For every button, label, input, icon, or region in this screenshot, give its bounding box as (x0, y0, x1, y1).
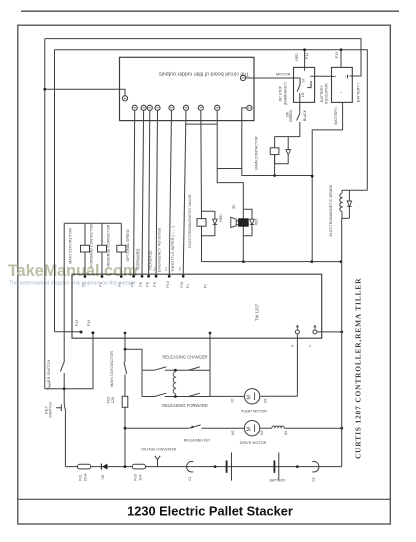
svg-text:ELECTROMAGNETIC VALVE: ELECTROMAGNETIC VALVE (187, 194, 192, 248)
svg-text:FORWARD: FORWARD (136, 249, 141, 270)
svg-text:FORWARD CONTACTOR: FORWARD CONTACTOR (90, 224, 94, 267)
svg-text:M: M (246, 427, 252, 432)
svg-text:BATTERY-: BATTERY- (334, 106, 338, 125)
svg-text:BATTERY: BATTERY (320, 84, 324, 102)
svg-text:REVERSE CONTACTOR: REVERSE CONTACTOR (107, 224, 111, 266)
svg-text:30A: 30A (138, 474, 142, 481)
svg-text:P2: P2 (135, 267, 139, 271)
svg-text:MAIN CONTACTOR: MAIN CONTACTOR (68, 228, 73, 264)
svg-text:The circuit board of tiller ru: The circuit board of tiller rudder outpu… (158, 70, 249, 76)
svg-text:RELEASING KEY: RELEASING KEY (184, 438, 211, 442)
svg-text:M3: M3 (260, 430, 264, 435)
svg-text:1230 Electric Pallet Stacker: 1230 Electric Pallet Stacker (127, 504, 293, 519)
svg-text:C20: C20 (111, 397, 115, 404)
svg-text:MAIN CONTACTOR: MAIN CONTACTOR (255, 136, 259, 170)
svg-text:RELEASING FORWARD: RELEASING FORWARD (162, 403, 208, 408)
svg-text:FU3: FU3 (133, 474, 137, 481)
svg-text:ST: ST (301, 78, 305, 82)
svg-text:P11: P11 (180, 281, 184, 287)
svg-text:VD: VD (101, 474, 105, 479)
svg-text:PUMP MOTOR: PUMP MOTOR (241, 409, 267, 413)
svg-text:GREEN: GREEN (289, 109, 293, 122)
svg-text:RED: RED (219, 214, 223, 222)
svg-text:TakeManual.com: TakeManual.com (8, 262, 137, 280)
svg-text:P16: P16 (87, 320, 91, 326)
svg-text:C0: C0 (231, 398, 235, 402)
svg-text:BATTERY+: BATTERY+ (357, 82, 361, 102)
svg-text:M1: M1 (264, 398, 268, 403)
svg-text:B2: B2 (284, 431, 288, 435)
svg-text:RED: RED (295, 53, 299, 61)
svg-text:TW 1207: TW 1207 (255, 303, 260, 321)
svg-text:EMERGENCY REVERSE: EMERGENCY REVERSE (157, 227, 162, 272)
svg-text:BATTERY: BATTERY (270, 479, 286, 483)
svg-text:B-: B- (308, 344, 312, 347)
svg-text:RELEASING CHANGER: RELEASING CHANGER (162, 355, 207, 360)
svg-text:M2: M2 (231, 430, 235, 435)
svg-text:FU2: FU2 (107, 397, 111, 404)
svg-text:THROTTLE WIPER (→←): THROTTLE WIPER (→←) (170, 225, 175, 272)
svg-text:P5: P5 (139, 282, 143, 286)
svg-text:DC STOP: DC STOP (279, 85, 283, 101)
svg-text:P8: P8 (145, 282, 149, 286)
svg-text:+: + (334, 74, 337, 79)
svg-text:INDICATOR: INDICATOR (325, 83, 329, 104)
svg-text:P2: P2 (204, 284, 208, 288)
svg-text:P13: P13 (75, 320, 79, 326)
svg-text:P5: P5 (178, 267, 182, 271)
svg-text:MAIN CONTACTOR: MAIN CONTACTOR (109, 351, 114, 387)
svg-text:P17: P17 (48, 382, 52, 388)
svg-text:DRIVE MOTOR: DRIVE MOTOR (240, 441, 267, 445)
svg-text:(EMERGENCY): (EMERGENCY) (283, 82, 287, 105)
svg-text:SWITCH: SWITCH (48, 402, 53, 418)
svg-text:P4: P4 (164, 267, 168, 271)
svg-text:VOLTAGE CONVERTER: VOLTAGE CONVERTER (141, 447, 177, 451)
svg-text:LO: LO (301, 92, 305, 97)
svg-text:REVERSE: REVERSE (147, 250, 152, 270)
svg-text:M: M (246, 395, 252, 400)
svg-text:M-: M- (291, 344, 295, 348)
svg-text:P4: P4 (99, 282, 103, 286)
svg-text:150A: 150A (84, 473, 88, 482)
svg-text:C2: C2 (312, 477, 316, 481)
svg-text:P3: P3 (118, 282, 122, 286)
svg-text:P11: P11 (305, 53, 309, 59)
svg-text:P10: P10 (166, 281, 170, 287)
svg-text:RED: RED (255, 218, 259, 225)
svg-text:CURTIS 1207 CONTROLLER,REMA TI: CURTIS 1207 CONTROLLER,REMA TILLER (354, 278, 363, 459)
svg-text:P9: P9 (153, 282, 157, 286)
svg-text:P6: P6 (130, 282, 134, 286)
svg-text:ELECTROMAGNETIC BRAKE: ELECTROMAGNETIC BRAKE (329, 184, 333, 236)
svg-text:BLACK: BLACK (303, 109, 307, 121)
svg-text:P3: P3 (153, 267, 157, 271)
svg-text:MOTOR: MOTOR (276, 71, 291, 76)
svg-text:FU1: FU1 (79, 474, 83, 481)
svg-text:P7: P7 (82, 282, 86, 286)
svg-text:OPTIONAL SPEED: OPTIONAL SPEED (126, 229, 130, 261)
svg-text:P1: P1 (186, 284, 190, 288)
svg-text:P13: P13 (335, 52, 339, 58)
svg-text:C1: C1 (188, 476, 192, 480)
